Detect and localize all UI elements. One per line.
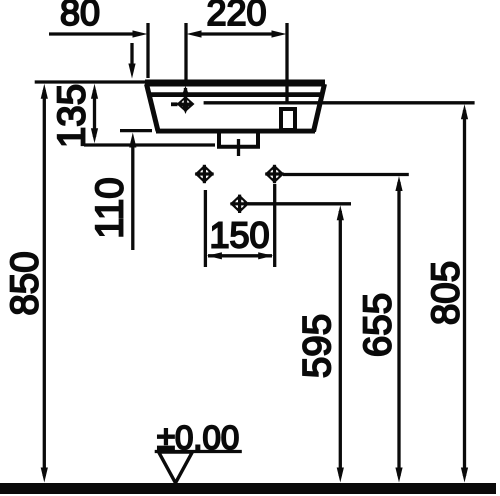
- tap hole symbol: [171, 86, 195, 114]
- basin inner rim line: [151, 92, 320, 97]
- fixing hole left: [195, 165, 214, 183]
- basin left slant: [147, 84, 159, 131]
- tap deck extension line: [204, 101, 475, 104]
- extension line 150 right: [273, 184, 276, 267]
- wall top extension line: [35, 80, 150, 83]
- siphon outlet box: [219, 131, 258, 147]
- basin bottom: [156, 129, 315, 134]
- dim line 150: [208, 254, 272, 257]
- extension line 655: [283, 173, 409, 176]
- svg-text:80: 80: [60, 0, 100, 33]
- leader down-arrow onto rim: [130, 43, 133, 68]
- extension line 220 right: [285, 23, 288, 102]
- siphon centreline: [237, 139, 240, 156]
- dim line 80 with right arrow: [49, 32, 136, 35]
- fixing hole middle: [230, 195, 249, 213]
- dim line 655: [397, 182, 400, 476]
- datum triangle: [159, 452, 193, 483]
- basin bottom extension line: [120, 129, 152, 132]
- extension line basin left edge: [146, 23, 149, 78]
- svg-text:805: 805: [425, 261, 468, 325]
- svg-text:655: 655: [357, 293, 400, 357]
- dim line 595: [339, 211, 342, 476]
- dim line 135: [93, 90, 96, 137]
- extension line 150 left: [204, 190, 207, 267]
- svg-text:595: 595: [296, 314, 339, 378]
- fixing hole right: [265, 165, 284, 183]
- svg-text:110: 110: [89, 177, 132, 238]
- extension line tap hole centre: [184, 23, 187, 85]
- floor slab: [0, 483, 496, 494]
- overflow hole: [281, 109, 295, 130]
- dim line 805: [463, 110, 466, 476]
- svg-text:850: 850: [4, 251, 47, 315]
- basin right slant: [314, 84, 325, 132]
- dim line 220 with outward arrows: [196, 32, 277, 35]
- svg-text:135: 135: [51, 84, 94, 148]
- dim line 850: [43, 90, 46, 476]
- basin rim bar: [145, 80, 325, 87]
- extension line 595: [248, 202, 351, 205]
- dim line 110 single arrow: [131, 140, 134, 250]
- svg-text:150: 150: [209, 215, 269, 256]
- siphon bottom extension line: [84, 143, 215, 146]
- svg-text:220: 220: [206, 0, 266, 33]
- datum underline: [155, 450, 242, 453]
